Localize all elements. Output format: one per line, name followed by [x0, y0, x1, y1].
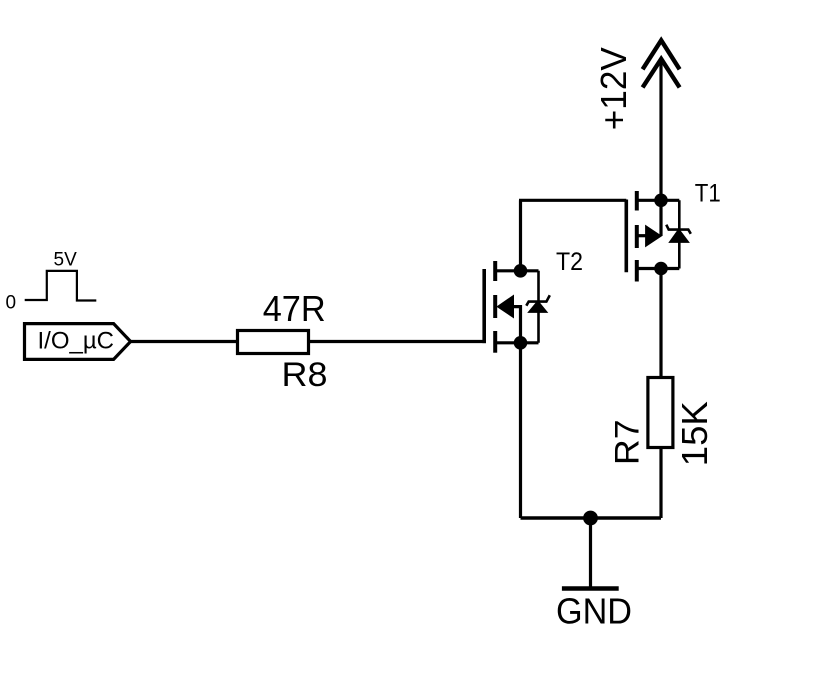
- T2 zener cathode bar: [526, 295, 550, 305]
- svg-text:0: 0: [6, 293, 17, 314]
- supply +12V arrow chevron lower: [643, 59, 680, 88]
- svg-text:15K: 15K: [674, 401, 715, 466]
- wire connector to R8: [131, 340, 239, 343]
- ground bar: [562, 586, 619, 591]
- T1 channel segment top: [635, 191, 639, 211]
- T2 source junction dot: [514, 336, 528, 350]
- T1 top junction dot: [654, 194, 668, 208]
- svg-text:GND: GND: [556, 591, 632, 632]
- T1 body zener diode triangle: [670, 230, 688, 242]
- T1 drain lead bottom: [637, 267, 680, 270]
- wire T1 top to +12V: [659, 58, 662, 200]
- T1 zener cathode bar: [666, 225, 691, 234]
- T2 body diode branch: [537, 271, 540, 343]
- T1 body link vertical from top node: [659, 200, 662, 236]
- T2 channel segment bottom: [493, 331, 497, 353]
- wire R8 to T2 gate: [309, 340, 486, 343]
- transistor T1 p-channel MOSFET: [626, 191, 691, 282]
- ground stem: [589, 518, 592, 588]
- svg-text:5V: 5V: [54, 250, 78, 271]
- resistor R8: [238, 331, 309, 354]
- transistor T2 n-channel MOSFET: [484, 261, 550, 353]
- ground rail junction dot: [583, 511, 598, 526]
- wire R7 to ground rail: [659, 448, 662, 519]
- T2 channel segment middle: [493, 295, 497, 318]
- T2 body link to source: [513, 307, 521, 343]
- T2 channel segment top: [493, 261, 497, 281]
- T2 source lead: [495, 341, 538, 344]
- svg-text:T1: T1: [695, 180, 721, 208]
- T2 gate bar: [482, 269, 486, 343]
- svg-text:I/O_µC: I/O_µC: [38, 328, 115, 355]
- wire T1 bottom to R7: [659, 269, 662, 378]
- T1 channel segment middle: [635, 225, 639, 248]
- T2 drain junction dot: [514, 264, 528, 278]
- pulse waveform 5V input signal: [25, 271, 97, 301]
- T2 body arrow (points left): [497, 295, 513, 317]
- svg-text:+12V: +12V: [593, 47, 634, 130]
- wire T2 drain up: [519, 200, 522, 270]
- svg-text:R7: R7: [608, 420, 646, 466]
- T2 body zener diode triangle: [529, 302, 546, 312]
- T1 gate bar: [624, 200, 628, 273]
- T1 bottom junction dot: [654, 262, 668, 276]
- T1 channel segment bottom: [635, 260, 639, 282]
- T2 drain lead: [495, 269, 538, 272]
- T1 body diode branch: [678, 200, 681, 268]
- connector I/O_µC: [25, 324, 131, 360]
- T1 source lead top: [637, 199, 680, 202]
- svg-text:47R: 47R: [263, 288, 326, 329]
- supply +12V arrow chevron upper: [643, 40, 680, 69]
- T1 body lead from channel: [637, 234, 647, 237]
- svg-text:R8: R8: [282, 356, 328, 394]
- T1 body arrow (points right): [646, 226, 662, 247]
- wire T2 source down to ground rail: [519, 343, 522, 518]
- wire ground rail horizontal: [521, 516, 662, 519]
- wire T2 drain to T1 gate: [519, 199, 626, 202]
- svg-text:T2: T2: [556, 248, 583, 276]
- resistor R7: [648, 378, 673, 448]
